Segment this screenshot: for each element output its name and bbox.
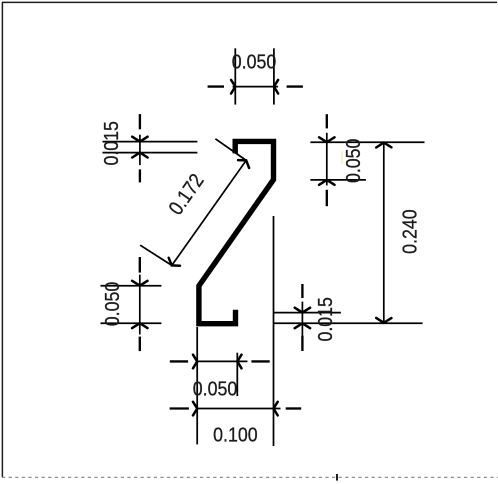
dim right-bottom 0.015 dimension line bbox=[301, 302, 303, 337]
dim right 0.050 arrow upper bbox=[319, 137, 334, 142]
dim left 0.015 arrow lower bbox=[132, 153, 147, 158]
dim left 0.015 arrow upper bbox=[132, 137, 147, 142]
dim left-bottom 0.050 overshoot dash bottom bbox=[139, 337, 141, 352]
dim 0.172 extension line lower bbox=[140, 245, 172, 265]
dim bottom 0.050 dimension line bbox=[196, 360, 248, 362]
dim 0.172 arrow lower bbox=[169, 258, 180, 266]
dim right-bottom 0.015 arrow lower bbox=[295, 323, 310, 328]
dim left 0.015 overshoot dash bottom bbox=[139, 169, 141, 182]
faint yellow mark bbox=[341, 151, 343, 164]
dim left-bottom 0.050 overshoot dash top bbox=[139, 257, 141, 273]
dim left 0.015 dimension line bbox=[139, 135, 141, 165]
svg-text:0.050: 0.050 bbox=[342, 139, 365, 184]
svg-text:0.100: 0.100 bbox=[213, 424, 258, 447]
dim right-bottom 0.015 overshoot dash bottom bbox=[301, 336, 303, 351]
dim left 0.015 extension line upper bbox=[103, 141, 198, 143]
dim 0.172 arrow upper bbox=[238, 160, 249, 168]
svg-text:0.050: 0.050 bbox=[232, 51, 277, 74]
dim right 0.050 extension line upper (shared with 0.240) bbox=[310, 141, 424, 143]
dim left-bottom 0.050 arrow lower bbox=[132, 323, 147, 328]
dim 0.240 arrow bottom bbox=[376, 318, 391, 323]
dim left-bottom 0.050 extension line upper bbox=[101, 285, 162, 287]
dim bottom 0.100 overshoot dash right bbox=[286, 407, 302, 409]
svg-text:0.050: 0.050 bbox=[193, 377, 238, 400]
dim bottom 0.050 arrow right bbox=[237, 355, 241, 369]
dim right-bottom 0.015 overshoot dash top bbox=[301, 284, 303, 298]
dim right-bottom 0.015 arrow upper bbox=[295, 308, 310, 313]
dim left-bottom 0.050 arrow upper bbox=[132, 281, 147, 286]
dim 0.240 extension line bottom (shared) bbox=[273, 322, 423, 324]
dim top 0.050 arrow right bbox=[274, 80, 278, 94]
dim right 0.050 arrow lower bbox=[319, 180, 334, 185]
dim bottom 0.050 extension line middle bbox=[236, 353, 238, 396]
dim top 0.050 overshoot dash left bbox=[208, 85, 224, 87]
dim bottom 0.100 overshoot dash left bbox=[170, 407, 189, 409]
dim top 0.050 extension line right bbox=[273, 48, 275, 104]
dim left-bottom 0.050 extension line lower bbox=[101, 322, 162, 324]
dim 0.240 arrow top bbox=[376, 143, 391, 148]
Z profile outline bbox=[199, 141, 274, 323]
svg-text:0.015: 0.015 bbox=[100, 121, 123, 166]
dim bottom 0.050 overshoot dash left bbox=[170, 360, 188, 362]
dim right 0.050 overshoot dash bottom bbox=[326, 190, 328, 206]
dim bottom 0.050 arrow left bbox=[193, 355, 197, 369]
svg-text:0.050: 0.050 bbox=[101, 282, 124, 327]
dim bottom 0.100 extension line right bbox=[273, 216, 275, 446]
dim top 0.050 overshoot dash right bbox=[287, 85, 303, 87]
dim bottom 0.050 overshoot dash right bbox=[251, 360, 269, 362]
dim right 0.050 overshoot dash top bbox=[326, 114, 328, 128]
dim top 0.050 extension line left bbox=[234, 48, 236, 104]
dim right 0.050 dimension line bbox=[326, 133, 328, 186]
dim bottom 0.100 dimension line bbox=[197, 408, 281, 410]
dim left-bottom 0.050 dimension line bbox=[139, 275, 141, 335]
dim bottom 0.100 arrow left bbox=[193, 402, 197, 416]
dim bottom 0.100 arrow right bbox=[274, 402, 278, 416]
datum tick on dashed border bbox=[336, 474, 338, 481]
dim right 0.050 extension line lower bbox=[310, 179, 366, 181]
dim 0.172 extension line upper bbox=[215, 139, 245, 160]
dim top 0.050 arrow left bbox=[231, 80, 235, 94]
page border bottom dashed bbox=[2, 476, 498, 478]
svg-text:0.240: 0.240 bbox=[399, 209, 422, 254]
svg-text:0.015: 0.015 bbox=[314, 297, 337, 342]
dim top 0.050 dimension line bbox=[233, 86, 279, 88]
dim 0.172 dimension line bbox=[172, 160, 246, 265]
page border top bbox=[2, 1, 497, 3]
dim bottom 0.050 extension line left bbox=[196, 327, 198, 444]
page border left bbox=[1, 2, 3, 477]
dim left 0.015 extension line lower bbox=[103, 152, 198, 154]
dim left 0.015 overshoot dash top bbox=[139, 114, 141, 129]
dim right-bottom 0.015 extension line upper bbox=[273, 312, 341, 314]
dim 0.240 dimension line bbox=[383, 142, 385, 323]
